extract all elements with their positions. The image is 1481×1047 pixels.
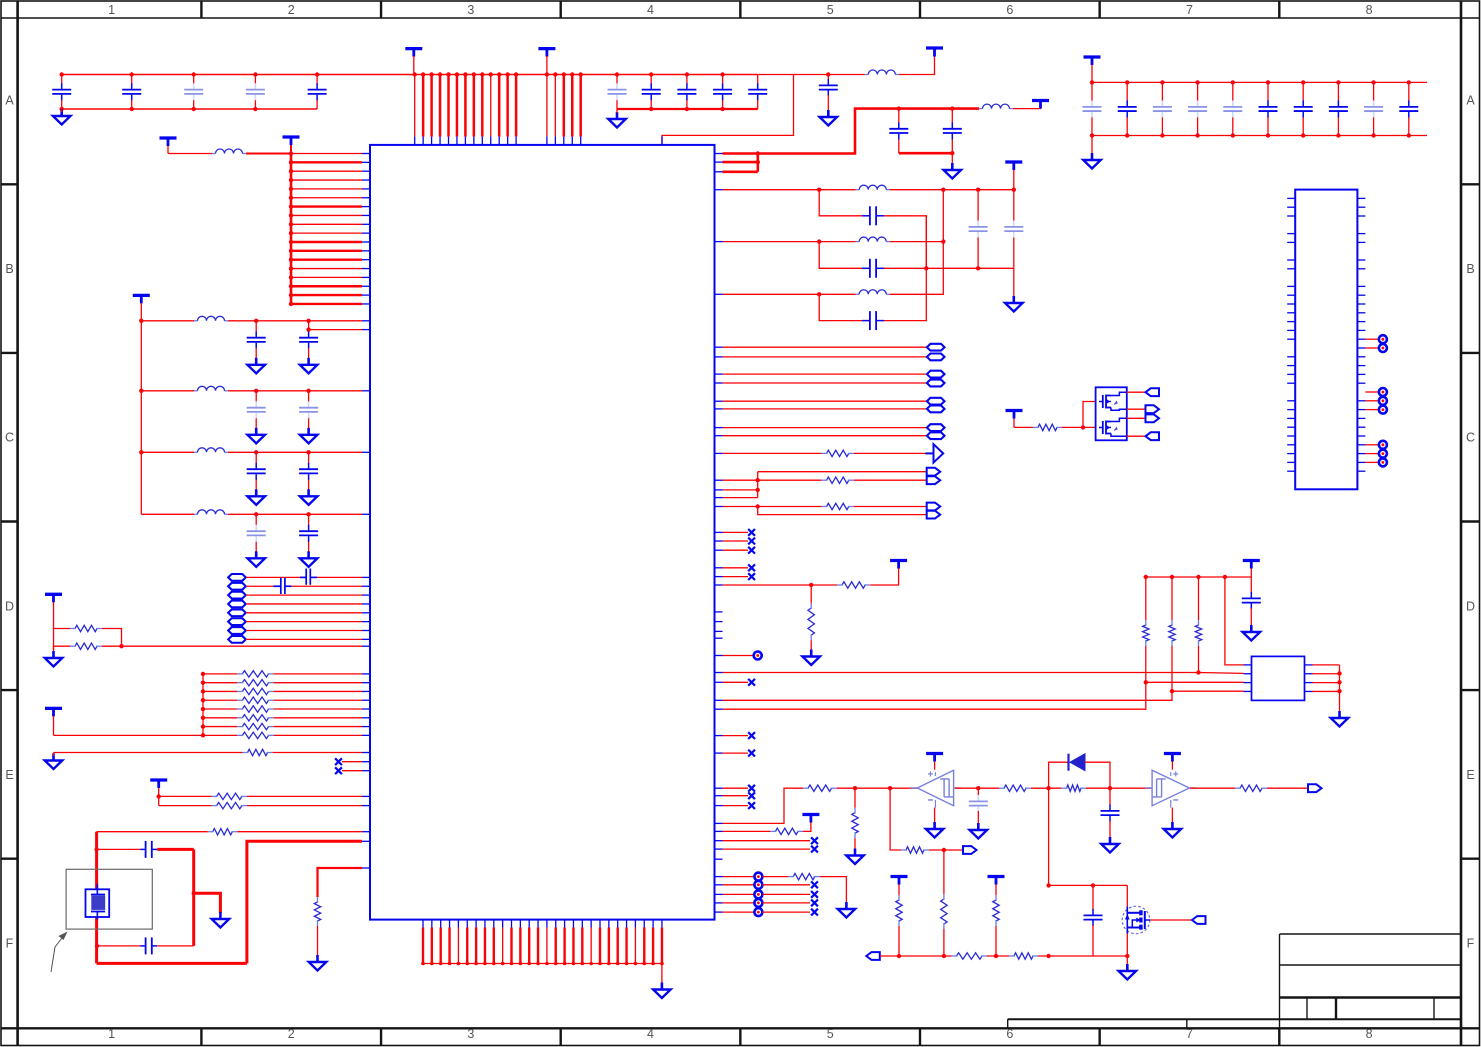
ground C40b — [300, 358, 318, 374]
wire row506 — [723, 504, 822, 508]
capacitor bankR C69 — [1399, 82, 1418, 135]
wire branch3 — [819, 294, 864, 320]
inductor coil pair 383.0 — [927, 380, 945, 387]
svg-text:A: A — [1466, 94, 1475, 108]
inductor coil FB1 — [228, 574, 246, 581]
ground C31C32 — [944, 163, 962, 179]
capacitor bank1 C14 — [246, 75, 265, 110]
wire nc row 532.4 — [723, 531, 749, 533]
capacitor C32 — [943, 109, 962, 154]
terminal TP3 — [754, 881, 762, 889]
wire U2 out — [955, 786, 999, 790]
resistor R26 — [1062, 785, 1086, 791]
wire T6 to L6 — [168, 153, 212, 155]
terminal TP2 — [754, 873, 762, 881]
capacitor C41b — [299, 391, 318, 429]
wire IC bottom pin comb — [421, 920, 664, 966]
wire row831 e — [237, 831, 362, 833]
capacitor bank2 C24 — [713, 75, 732, 110]
ground U4 — [1331, 711, 1349, 727]
IC pin stub r823 — [714, 822, 722, 824]
IC pin stub r646 — [362, 645, 370, 647]
ground R22 — [846, 849, 864, 865]
IC pin stub r241 — [714, 241, 722, 243]
ground C30 — [820, 110, 838, 126]
terminal TP5 — [754, 899, 762, 907]
wire coil row4 — [246, 603, 362, 605]
wire U4 outputs join — [1313, 665, 1342, 712]
wire C53 gnd — [977, 811, 979, 824]
resistor R20 — [808, 603, 814, 640]
wire L3 east — [890, 188, 1016, 192]
IC pin stub r752 — [362, 752, 370, 754]
wire row514 — [758, 507, 927, 515]
wire filter aux row 1 — [306, 327, 362, 331]
wire C57 east — [157, 945, 194, 947]
IC pin stub r831r — [714, 830, 722, 832]
wire bankR bottom rail — [1090, 133, 1427, 137]
resistor R3 — [237, 671, 273, 677]
wire coil row3 — [246, 594, 362, 596]
inductor L9 — [194, 448, 228, 453]
svg-text:7: 7 — [1186, 3, 1193, 17]
wire coilpair row 356.9 — [723, 356, 927, 358]
wire C56 gnd — [1250, 608, 1252, 626]
op-amp U3 — [1145, 770, 1196, 808]
capacitor bankR C66 — [1294, 82, 1313, 135]
wire L2 to power — [1013, 101, 1041, 109]
IC pin stub x576.6 — [714, 576, 722, 578]
IC pin stub rc894.4 — [714, 893, 722, 895]
wire R29 col — [943, 850, 945, 894]
wire nc left 770.7 — [342, 770, 362, 772]
tag U5 436.2 — [1146, 432, 1160, 440]
wire bottom rail 956 a — [880, 954, 952, 958]
ground C43a — [247, 551, 265, 567]
wire res array row7 e — [274, 734, 362, 736]
wire row831r — [723, 830, 771, 832]
wire nc row 795.7 — [723, 795, 749, 797]
svg-text:C: C — [5, 431, 14, 445]
svg-text:F: F — [6, 937, 14, 951]
IC pin stub r796 — [362, 795, 370, 797]
IC pin stub coil2 — [362, 594, 370, 596]
capacitor C56 — [1242, 592, 1261, 609]
wire bank2 bottom rail — [617, 107, 758, 111]
IC top pin stub x662 — [661, 137, 663, 145]
wire R31 bot — [995, 926, 997, 956]
wire R22 gnd — [854, 838, 856, 849]
resistor R33 — [1009, 953, 1038, 959]
tag T471 — [927, 468, 941, 476]
IC pin stub cr374.1 — [714, 373, 722, 375]
no-connect X682 — [748, 679, 755, 686]
wire res row646 w — [54, 645, 71, 647]
capacitor bankR C64 — [1223, 82, 1242, 135]
capacitor bank2 C25 — [748, 75, 767, 110]
no-connect X 753.1 — [748, 750, 755, 757]
capacitor bankR C68 — [1364, 82, 1383, 135]
IC pin stub x567.8 — [714, 567, 722, 569]
capacitor C30 — [819, 79, 838, 96]
resistor R31 — [993, 895, 999, 926]
ground C53 — [970, 823, 988, 839]
wire coilpair row 401.2 — [723, 400, 927, 402]
IC pin stub cr427.6 — [714, 427, 722, 429]
IC pin stub bare 631.4 — [714, 630, 722, 632]
wire mosfet source — [1126, 934, 1128, 957]
IC pin stub fl1 — [362, 390, 370, 392]
wire coilpair row 435.7 — [723, 435, 927, 437]
svg-text:3: 3 — [467, 1027, 474, 1041]
wire rail 956 c — [1038, 954, 1130, 958]
wire R26 east — [1086, 786, 1152, 790]
power VDD T7 — [283, 137, 300, 154]
wire circ row 912.1 a — [723, 911, 755, 913]
ground xtal — [212, 912, 230, 928]
IC pin stub ra5 — [362, 717, 370, 719]
wire row497 — [723, 497, 758, 499]
wire coil row8 — [246, 638, 362, 640]
IC pin stub x541.0 — [714, 540, 722, 542]
power VDD T16 — [891, 877, 908, 896]
svg-text:1: 1 — [108, 3, 115, 17]
capacitor bankR C65 — [1259, 82, 1278, 135]
inductor coil pair 374.1 — [927, 371, 945, 378]
wire C53 stub — [977, 788, 979, 795]
IC pin stub fl2 — [362, 451, 370, 453]
wire R22 top — [854, 788, 856, 808]
wire row831r e — [803, 820, 811, 831]
ground bank2 — [608, 109, 626, 128]
wire nc row 788.2 — [723, 787, 749, 789]
wire to ground C32 — [951, 153, 953, 164]
inductor coil pair 427.6 — [927, 424, 945, 431]
transistor pair U5 — [1096, 387, 1127, 440]
wire network rail — [1144, 575, 1252, 579]
capacitor C41a — [247, 391, 266, 429]
resistor R23 — [770, 828, 803, 834]
tag T506 — [927, 503, 941, 511]
capacitor C33 — [862, 206, 884, 225]
wire VDD rail thin extension — [662, 75, 794, 145]
ground U2 — [926, 822, 944, 838]
wire coil row1 a — [246, 576, 300, 578]
wire R29 bot — [943, 929, 945, 956]
capacitor C34 — [862, 259, 884, 278]
crystal block outline — [66, 869, 152, 929]
no-connect X 795.7 — [748, 792, 755, 799]
wire C54 stub — [1109, 788, 1111, 805]
IC pin stub ra3 — [362, 699, 370, 701]
wire IC row241 — [723, 239, 856, 243]
no-connect X left 761.7 — [335, 758, 342, 765]
wire res array row2 e — [274, 690, 362, 692]
wire rail 956 gnd — [1126, 956, 1128, 965]
wire L5 east — [890, 190, 946, 295]
inductor L5 — [856, 290, 890, 295]
wire C52 east — [157, 848, 194, 851]
tag T956 — [866, 952, 880, 960]
inductor coil FB6 — [228, 618, 246, 625]
resistor R29 — [941, 894, 947, 929]
wire T10 to bus — [54, 734, 204, 736]
resistor R16 — [822, 450, 854, 456]
IC pin stub coil0 — [362, 576, 370, 578]
inductor L8 — [194, 386, 228, 391]
wire filter row 3 east — [228, 450, 362, 454]
wire IC pin row171 — [723, 171, 758, 174]
capacitor bank1 C15 — [308, 75, 327, 110]
wire R11 e — [273, 752, 362, 754]
tag U5 418.3 — [1146, 414, 1160, 422]
IC pin stub coil4 — [362, 612, 370, 614]
IC pin stub x753.1 — [714, 752, 722, 754]
ground C54 — [1101, 837, 1119, 853]
capacitor C35 — [862, 311, 884, 330]
capacitor bankR C61 — [1118, 82, 1137, 135]
wire row823 — [723, 788, 804, 823]
wire res array row1 e — [274, 682, 362, 684]
IC pin stub cr435.7 — [714, 435, 722, 437]
wire row805 w — [159, 805, 212, 807]
svg-text:4: 4 — [647, 3, 654, 17]
wire C55 bot — [1092, 925, 1094, 956]
annotation arrow — [51, 932, 68, 973]
wire row796 w — [159, 795, 212, 797]
IC pin stub ra2 — [362, 690, 370, 692]
IC pin stub ra1 — [362, 682, 370, 684]
resistor R21 — [803, 785, 837, 791]
wire filter row 3 west — [141, 451, 194, 453]
resistor Rn1172 — [1169, 620, 1175, 646]
power VDD T17 — [988, 877, 1005, 896]
wire branch2 — [819, 242, 864, 269]
op-amp U2 — [910, 770, 960, 808]
svg-text:1: 1 — [108, 1027, 115, 1041]
resistor R17 — [822, 477, 854, 483]
wire res array row5 w — [203, 717, 237, 719]
wire res array row7 w — [203, 734, 237, 736]
power VDD T18 — [1243, 561, 1260, 578]
inductor L3 — [856, 185, 890, 190]
svg-text:C: C — [1466, 431, 1475, 445]
wire res row628 e — [102, 629, 122, 647]
resistor R12 — [212, 793, 247, 799]
wire row805 e — [247, 805, 362, 807]
resistor Rn1145.8 — [1143, 620, 1149, 646]
capacitor bankR C67 — [1329, 82, 1348, 135]
ground bottom comb — [653, 983, 671, 999]
ground rail956 — [1119, 964, 1137, 980]
wire coil row2 a — [246, 585, 273, 587]
power VDD T15 — [1164, 754, 1181, 770]
transistor Q1 — [1122, 906, 1150, 934]
ground C42b — [300, 489, 318, 505]
IC pin stub rc884.8 — [714, 884, 722, 886]
wire coil row1 b — [317, 576, 362, 578]
IC pin stub r868 — [362, 867, 370, 869]
inductor L10 — [194, 510, 228, 515]
wire U4 pin3 in — [1144, 680, 1244, 684]
wire U4 pin4 in — [1170, 689, 1244, 693]
no-connect X 912.1 — [811, 909, 818, 916]
terminal TP6 — [754, 908, 762, 916]
power VDD T3 — [926, 48, 943, 57]
ground R11 — [45, 753, 63, 770]
wire res array row4 e — [274, 708, 362, 710]
wire nc row 576.6 — [723, 576, 749, 578]
wire net col4 — [1225, 577, 1244, 665]
capacitor C42a — [247, 452, 266, 490]
wire row480 — [723, 479, 758, 481]
wire filter row 1 west — [141, 320, 194, 322]
svg-text:D: D — [5, 599, 14, 613]
wire res array row1 w — [203, 682, 237, 684]
svg-text:B: B — [1466, 262, 1474, 276]
wire Rn bot 1172 — [1171, 646, 1173, 691]
ground T9 — [45, 651, 63, 667]
IC pin stub ra4 — [362, 708, 370, 710]
power VDD T11 — [150, 780, 167, 796]
ground R20 — [802, 650, 820, 666]
inductor L1 — [865, 70, 899, 75]
wire C33 east — [884, 216, 929, 271]
capacitor bank2 C22 — [642, 75, 661, 110]
IC pin stub x795.7 — [714, 795, 722, 797]
inductor L2 — [979, 104, 1013, 109]
wire filter row 4 west — [141, 513, 194, 515]
ground C42a — [247, 489, 265, 505]
capacitor C50 rotated — [300, 569, 317, 585]
resistor Rn1198.5 — [1195, 620, 1201, 646]
wire xtal left vert — [95, 832, 98, 964]
IC pin stub r700 — [714, 699, 722, 701]
wire res array row0 e — [274, 673, 362, 675]
inductor coil pair 347.2 — [927, 344, 945, 351]
wire coilpair row 383.0 — [723, 382, 927, 384]
IC pin stub ra6 — [362, 726, 370, 728]
wire bankR top rail — [1090, 80, 1427, 84]
wire cluster vert — [757, 472, 759, 498]
IC pin stub ra0 — [362, 673, 370, 675]
IC pin stub ncl761.7 — [362, 761, 370, 763]
wire nc row682 — [723, 681, 749, 683]
ground C56 — [1243, 625, 1261, 641]
tag T788 — [1308, 784, 1322, 792]
wire U4 pin2 in — [1199, 672, 1244, 675]
tag U5 392.2 — [1146, 388, 1160, 396]
wire circ row 902.9 b — [762, 902, 810, 904]
ground bankR — [1083, 153, 1101, 169]
power VDD T8 — [133, 295, 150, 320]
inductor coil FB4 — [228, 601, 246, 608]
wire nc row 567.8 — [723, 567, 749, 569]
wire U5 out 418.3 — [1127, 417, 1146, 419]
no-connect X left 770.7 — [335, 767, 342, 774]
wire IC pin row162 — [723, 160, 761, 164]
IC pin stub r294 — [714, 293, 722, 295]
wire R27 east — [1267, 787, 1308, 789]
capacitor bank1 C11 — [52, 75, 71, 110]
no-connect X 902.9 — [811, 900, 818, 907]
title block — [1008, 934, 1461, 1028]
svg-text:8: 8 — [1366, 1027, 1373, 1041]
resistor R14 — [208, 829, 238, 835]
capacitor C42b — [299, 452, 318, 490]
wire circ row 884.8 b — [762, 884, 810, 886]
wire circ row 894.4 a — [723, 893, 755, 895]
resistor R22 — [852, 808, 858, 839]
IC pin stub r497 — [714, 497, 722, 499]
wire U3 out — [1190, 787, 1235, 789]
IC pin stub fla0 — [362, 329, 370, 331]
IC pin stub r480 — [714, 479, 722, 481]
IC pin stub r672 — [714, 672, 722, 674]
resistor R5 — [237, 688, 273, 694]
terminal TP1 — [754, 652, 762, 660]
wire VDD rail top — [60, 72, 758, 76]
wire row868 — [318, 868, 363, 897]
wire branch to rail — [890, 788, 901, 850]
wire C55 stub — [1092, 885, 1094, 910]
ground U3 — [1164, 822, 1182, 838]
capacitor C43a — [247, 514, 266, 552]
wire R30 bot — [898, 926, 900, 956]
power VDD T20 — [1084, 57, 1101, 82]
IC pin stub rc902.9 — [714, 902, 722, 904]
wire R20 gnd — [810, 640, 812, 650]
inductor coil pair 435.7 — [927, 432, 945, 439]
wire circ row 894.4 b — [762, 893, 810, 895]
wire row453 w — [723, 452, 822, 454]
wire L6 to bus — [246, 153, 291, 155]
IC pin stub fl0 — [362, 320, 370, 322]
no-connect X 805.6 — [748, 802, 755, 809]
wire L1 to power — [899, 56, 935, 75]
resistor R32 — [952, 953, 988, 959]
wire coilpair row 374.1 — [723, 373, 927, 375]
wire T11 bus — [157, 794, 161, 805]
inductor coil FB5 — [228, 609, 246, 616]
wire nc row 541.0 — [723, 540, 749, 542]
wire U5 out 436.2 — [1127, 435, 1146, 437]
resistor R27 — [1235, 785, 1267, 791]
capacitor bank1 C13 — [184, 75, 203, 110]
IC pin stub r682 — [714, 681, 722, 683]
capacitor C54 — [1101, 805, 1120, 822]
capacitor bank1 C12 — [122, 75, 141, 110]
wire row796 e — [247, 795, 362, 797]
IC pin stub r805 — [362, 805, 370, 807]
resistor R6 — [237, 697, 273, 703]
wire xtal gnd branch — [194, 893, 221, 913]
svg-text:6: 6 — [1006, 1027, 1013, 1041]
wire row585 — [723, 583, 838, 587]
ground C37 — [1005, 296, 1023, 312]
power VDD T19 — [1006, 411, 1023, 428]
IC pin stub r585 — [714, 584, 722, 586]
inductor L6 — [212, 149, 246, 154]
inductor L4 — [856, 237, 890, 242]
wire coil row6 — [246, 621, 362, 623]
wire row876 c — [820, 877, 847, 903]
inductor L7 — [194, 316, 228, 321]
inductor coil FB3 — [228, 592, 246, 599]
capacitor bankR C62 — [1153, 82, 1172, 135]
inductor coil pair 401.2 — [927, 398, 945, 405]
wire row506 e — [854, 506, 927, 508]
